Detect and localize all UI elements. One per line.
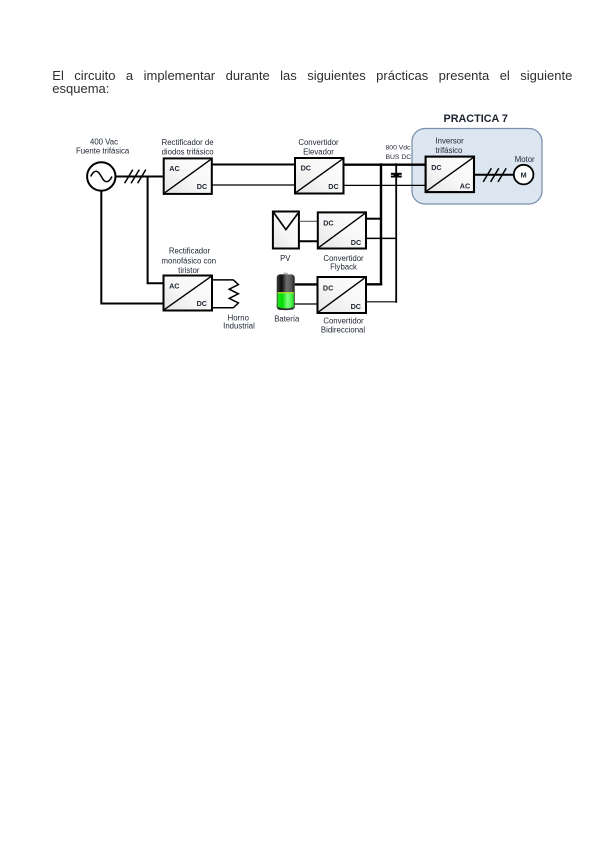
label: Inversor <box>436 137 465 146</box>
converter block: rectificador monofasico con tiristor (AC/DC) <box>164 276 213 311</box>
battery BT1 <box>277 273 295 311</box>
three-phase slash marks on motor wire <box>483 168 506 182</box>
svg-text:trifásico: trifásico <box>436 146 464 155</box>
wire: boost output to inverter (top bus, crosses 800Vdc bus) <box>344 164 426 166</box>
converter block: convertidor bidireccional (DC/DC) <box>318 277 367 313</box>
wire: PV minus to flyback (bottom) <box>299 240 319 242</box>
motor M1 (circle with M) <box>514 165 534 185</box>
svg-text:Batería: Batería <box>274 314 300 323</box>
svg-text:DC: DC <box>431 163 441 172</box>
wire: source bottom return to single-phase rectifier <box>101 191 164 304</box>
label: Horno <box>228 313 250 322</box>
svg-text:Bidireccional: Bidireccional <box>321 325 365 334</box>
converter block: convertidor elevador (DC/DC boost) <box>295 158 344 194</box>
label: 800 Vdc <box>386 145 412 152</box>
svg-text:diodos trifásico: diodos trifásico <box>162 147 215 156</box>
wire: source to rectifier AC input <box>116 176 165 178</box>
svg-text:DC: DC <box>323 219 333 228</box>
label: monofasico con <box>161 256 216 265</box>
three-phase slash marks on source wire <box>125 170 146 184</box>
resistor R horno industrial (zigzag) <box>229 280 238 308</box>
svg-text:DC: DC <box>351 302 361 311</box>
svg-text:Flyback: Flyback <box>330 262 357 271</box>
label: BUS DC <box>385 154 411 161</box>
wire: rectifier DC+ to boost converter (top bus) <box>212 163 296 165</box>
svg-text:Convertidor: Convertidor <box>323 316 364 325</box>
svg-text:DC: DC <box>323 283 333 292</box>
svg-text:M: M <box>521 170 527 179</box>
svg-text:Fuente trifásica: Fuente trifásica <box>76 147 130 156</box>
svg-text:Industrial: Industrial <box>223 322 255 331</box>
svg-text:AC: AC <box>169 164 179 173</box>
svg-text:PRACTICA 7: PRACTICA 7 <box>444 113 508 125</box>
svg-text:400 Vac: 400 Vac <box>90 138 118 147</box>
svg-text:Convertidor: Convertidor <box>298 138 339 147</box>
svg-text:PV: PV <box>280 254 291 263</box>
AC source G1 (400 Vac fuente trifasica) <box>87 162 115 190</box>
svg-text:Elevador: Elevador <box>303 147 334 156</box>
converter block: inversor trifasico (DC/AC) U-inverter <box>426 157 474 193</box>
wire: flyback output+ to bus line A <box>366 218 381 220</box>
label: PRACTICA 7 <box>444 113 508 125</box>
wire: bidirectional output- to bus line B <box>366 301 397 303</box>
label: diodos trifasico <box>162 147 215 156</box>
converter block: convertidor flyback (DC/DC) <box>318 212 366 248</box>
wire: rectifier DC+ to load resistor (top) <box>212 279 234 281</box>
wire: rectifier DC- return to boost converter (bottom) <box>212 184 296 186</box>
label: tiristor <box>178 266 200 275</box>
label: Flyback <box>330 262 357 271</box>
label: Convertidor (flyback) <box>323 254 364 263</box>
label: Convertidor <box>298 138 339 147</box>
wire: PV plus to flyback (top, thin gray) <box>299 220 319 222</box>
label: Rectificador de <box>162 138 214 147</box>
capacitor: DC bus capacitor on bus line B <box>391 173 402 178</box>
label: trifasico <box>436 146 464 155</box>
svg-text:800 Vdc: 800 Vdc <box>386 145 412 152</box>
label: Bidireccional <box>321 325 365 334</box>
svg-text:Rectificador de: Rectificador de <box>162 138 214 147</box>
svg-text:AC: AC <box>460 181 470 190</box>
label: Motor <box>515 155 535 164</box>
svg-text:Motor: Motor <box>515 155 535 164</box>
svg-text:DC: DC <box>301 163 311 172</box>
svg-text:BUS DC: BUS DC <box>385 154 411 161</box>
svg-text:monofásico con: monofásico con <box>161 256 216 265</box>
PV panel module <box>273 212 299 249</box>
label: Rectificador <box>169 247 211 256</box>
wire: battery + to bidirectional converter (top) <box>295 283 319 285</box>
label: 400 Vac <box>90 138 118 147</box>
net: 800 Vdc BUS DC - vertical bus line A (positive rail) <box>380 163 382 285</box>
label: Industrial <box>223 322 255 331</box>
svg-text:DC: DC <box>328 182 338 191</box>
label: PV <box>280 254 291 263</box>
label: Bateria <box>274 314 300 323</box>
svg-text:tiristor: tiristor <box>178 266 200 275</box>
wire: flyback output- to bus line B <box>366 237 397 239</box>
svg-text:DC: DC <box>351 238 361 247</box>
svg-text:DC: DC <box>197 299 207 308</box>
wire: inverter AC output to motor <box>474 174 514 176</box>
label: Elevador <box>303 147 334 156</box>
svg-text:DC: DC <box>197 182 207 191</box>
net: 800 Vdc BUS DC - vertical bus line B (negative rail) <box>395 163 397 302</box>
converter block: rectificador de diodos trifasico (AC/DC) <box>164 158 212 194</box>
svg-text:Inversor: Inversor <box>436 137 465 146</box>
svg-text:AC: AC <box>169 281 179 290</box>
wire: junction drop to single-phase rectifier (vertical) <box>148 177 164 284</box>
wire: resistor bottom back to rectifier DC- <box>212 307 234 309</box>
wire: boost return to inverter (bottom, crosses bus) <box>344 184 426 186</box>
svg-text:Rectificador: Rectificador <box>169 247 211 256</box>
wire: bidirectional output+ to bus line A <box>366 283 382 285</box>
wire: battery - to bidirectional converter (bottom) <box>295 303 319 305</box>
label: Fuente trifasica <box>76 147 130 156</box>
PRACTICA 7 highlight box <box>412 129 542 205</box>
label: Convertidor (bidireccional) <box>323 316 364 325</box>
